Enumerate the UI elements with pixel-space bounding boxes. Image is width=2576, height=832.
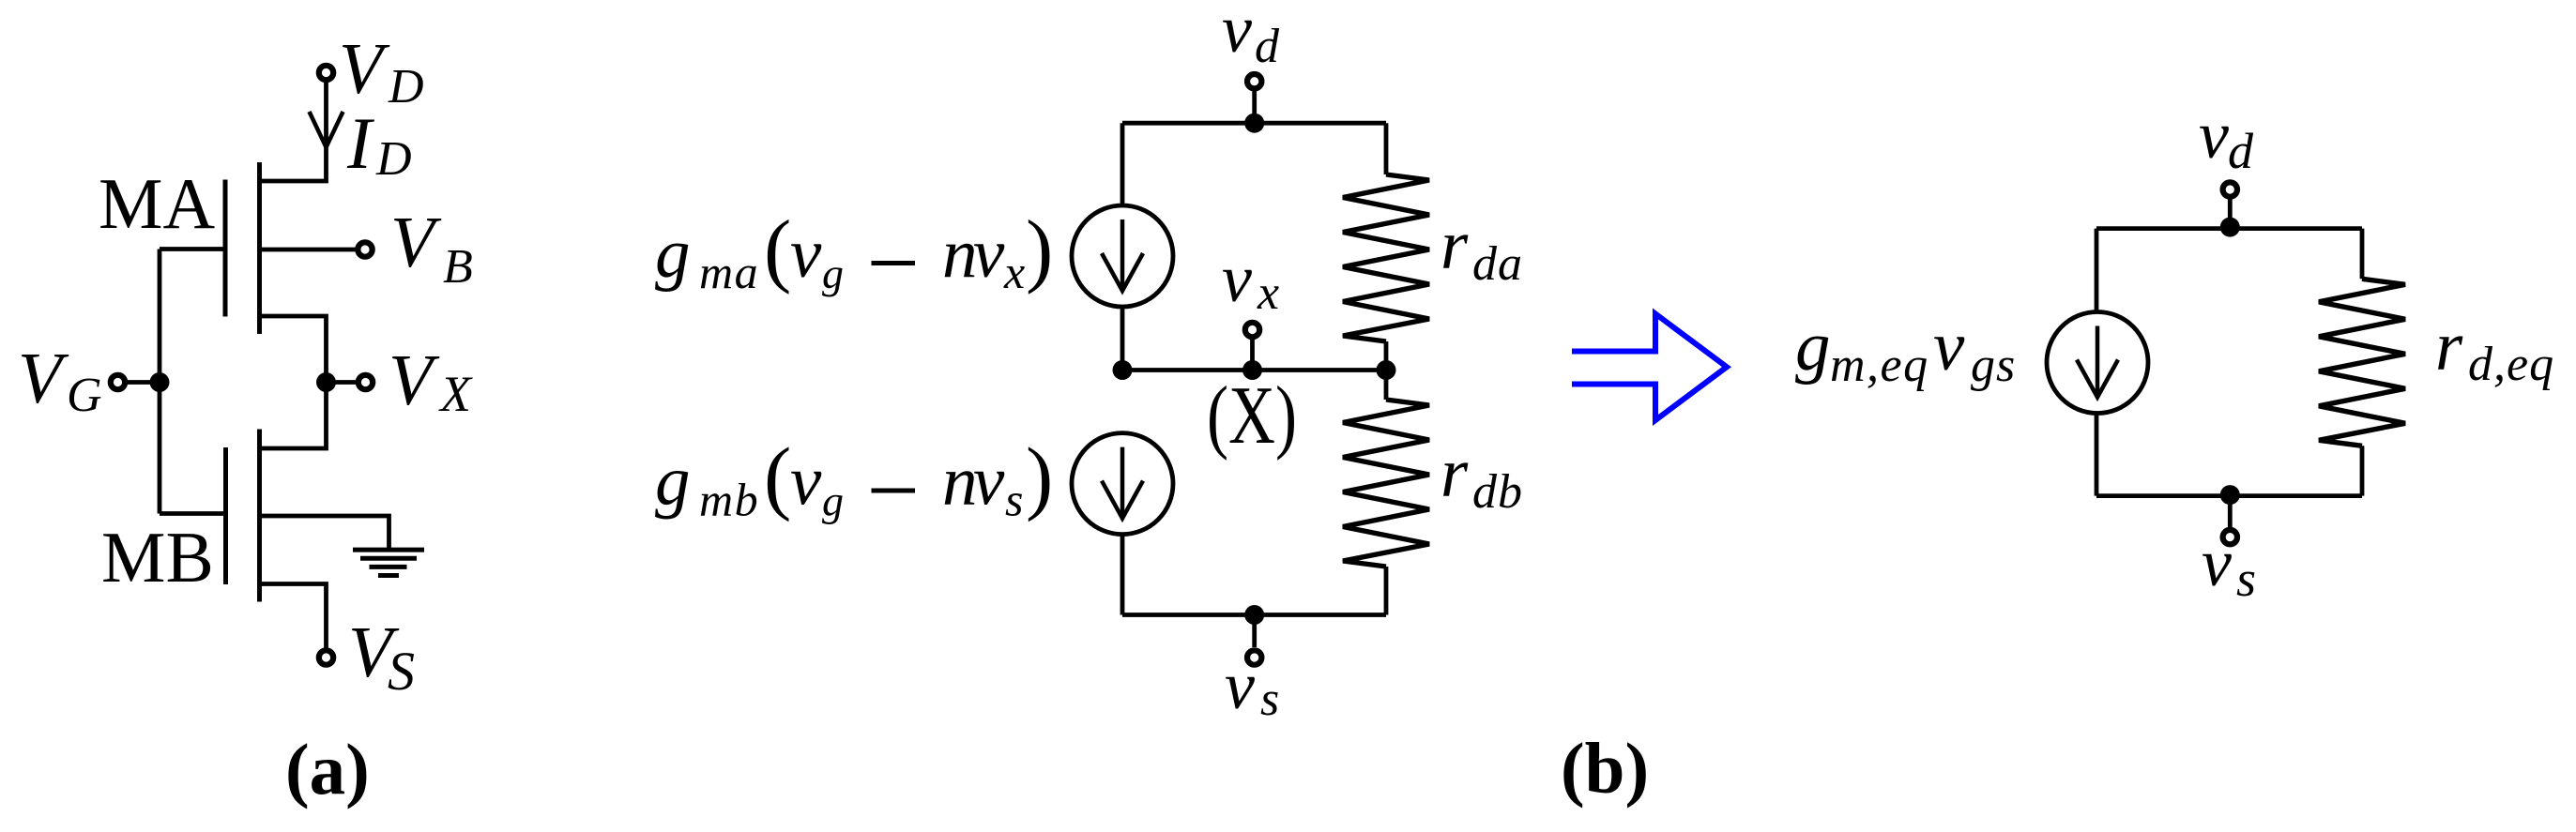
label VG (18, 338, 102, 422)
label gma(vg - nvx) (655, 204, 1053, 298)
svg-text:d: d (2228, 123, 2254, 179)
svg-text:V: V (390, 202, 442, 282)
label VX (389, 340, 473, 422)
svg-text:V: V (18, 338, 69, 418)
svg-text:g: g (655, 215, 691, 293)
svg-text:MA: MA (99, 163, 215, 244)
current source gmeq (2047, 312, 2148, 414)
label gmb(vg - nvs) (655, 432, 1053, 526)
svg-text:v: v (973, 443, 1005, 521)
svg-text:): ) (1026, 432, 1053, 523)
wire rdb to bottom rail (1384, 567, 1389, 615)
label VB (390, 202, 473, 294)
vs stem wire (2228, 496, 2233, 527)
transistor MB gate bar (223, 447, 228, 584)
node vs terminal (2223, 530, 2237, 544)
wire rdeq to bottom rail (2360, 446, 2365, 495)
transistor MA gate bar (223, 180, 228, 317)
svg-text:(: ( (764, 204, 791, 295)
vd stem wire (1252, 91, 1257, 123)
svg-text:x: x (1257, 266, 1279, 320)
svg-text:n: n (942, 443, 978, 521)
vd stem wire (2228, 199, 2233, 229)
node vs terminal (1247, 650, 1261, 664)
transistor MB channel bar (257, 430, 262, 602)
wire top rail to source A (1120, 123, 1125, 205)
svg-text:v: v (790, 443, 822, 521)
svg-text:g: g (655, 443, 691, 521)
vs stem wire (1252, 615, 1257, 648)
current source gmb (1072, 433, 1173, 535)
svg-text:mb: mb (699, 474, 759, 526)
svg-text:n: n (942, 215, 978, 293)
terminal VX (358, 375, 373, 389)
label rda (1440, 206, 1523, 291)
label rdeq (2435, 308, 2554, 391)
MB source wire to VS (260, 584, 327, 648)
gate bus vertical wire (158, 250, 162, 514)
svg-text:V: V (339, 28, 390, 109)
terminal VB (358, 242, 372, 256)
wire top rail to rdeq (2360, 229, 2365, 280)
MA gate wire (160, 247, 225, 251)
label vs (1225, 648, 1279, 726)
svg-text:v: v (2199, 98, 2229, 173)
MB gate wire (160, 511, 226, 516)
svg-text:x: x (1003, 246, 1025, 298)
blue arrow (1572, 314, 1727, 421)
node vs junction dot (1244, 605, 1264, 625)
svg-text:g: g (822, 250, 844, 297)
terminal VS (319, 650, 333, 664)
svg-text:g: g (822, 477, 844, 525)
svg-text:r: r (1440, 434, 1469, 512)
svg-text:d,eq: d,eq (2468, 338, 2554, 391)
label rdb (1440, 434, 1523, 519)
svg-text:X: X (438, 366, 473, 422)
top rail wire (2096, 226, 2362, 231)
svg-text:I: I (346, 102, 375, 184)
svg-text:S: S (388, 641, 415, 702)
svg-text:v: v (1933, 308, 1965, 386)
svg-text:v: v (1222, 0, 1252, 67)
node vs junction dot (2220, 485, 2240, 505)
VB wire (260, 248, 356, 252)
MA source wire down to node X (260, 316, 327, 383)
wire source A to mid rail (1120, 307, 1125, 371)
svg-text:m,eq: m,eq (1830, 339, 1929, 392)
VG wire (125, 380, 160, 385)
current source gma (1072, 205, 1173, 307)
label vd (1222, 0, 1280, 73)
svg-text:ma: ma (699, 246, 759, 298)
svg-text:s: s (1260, 673, 1279, 726)
MB body wire to ground (260, 516, 389, 550)
terminal VD (319, 66, 333, 80)
svg-text:db: db (1472, 465, 1523, 519)
svg-text:(: ( (764, 432, 791, 523)
svg-text:d: d (1255, 20, 1280, 73)
node X junction dot (316, 372, 336, 392)
label vx (1222, 241, 1279, 320)
svg-text:V: V (389, 340, 440, 420)
svg-text:r: r (1440, 206, 1469, 284)
svg-text:MB: MB (101, 517, 214, 598)
resistor rdb (1343, 400, 1429, 567)
wire rda to mid rail (1384, 341, 1389, 371)
svg-text:): ) (1026, 204, 1053, 295)
svg-text:gs: gs (1971, 339, 2016, 392)
node vx terminal (1245, 323, 1259, 337)
node vx junction dot (1242, 360, 1262, 380)
svg-text:s: s (1005, 474, 1023, 526)
VX wire (327, 380, 357, 385)
mid rail wire (1122, 368, 1386, 372)
bottom rail wire (2096, 493, 2362, 498)
label VD (339, 28, 424, 113)
label gmeq vgs (1795, 308, 2016, 392)
resistor rdeq (2319, 279, 2405, 446)
svg-text:v: v (790, 215, 822, 293)
top rail wire (1122, 121, 1386, 126)
wire source B to bottom rail (1120, 535, 1125, 615)
wire source to bottom rail (2095, 414, 2099, 496)
label vd (2199, 98, 2254, 179)
label ID (346, 102, 412, 186)
minus sign in gmb label (872, 489, 916, 493)
transistor MA channel bar (257, 162, 262, 334)
svg-text:(X): (X) (1207, 371, 1297, 461)
node vd junction dot (2220, 218, 2240, 237)
svg-text:(a): (a) (285, 729, 370, 809)
svg-text:D: D (388, 60, 424, 113)
svg-text:da: da (1472, 237, 1523, 291)
resistor rda (1343, 174, 1429, 341)
svg-text:D: D (375, 132, 412, 186)
wire top rail to source (2095, 229, 2099, 312)
svg-text:G: G (67, 369, 102, 422)
ground (353, 550, 424, 575)
wire top rail to rda (1384, 123, 1389, 174)
svg-text:v: v (1225, 648, 1255, 723)
label VS (348, 612, 415, 702)
terminal VG (111, 375, 125, 389)
junction dot right (1377, 360, 1396, 380)
node vd junction dot (1244, 113, 1264, 133)
svg-text:g: g (1795, 308, 1831, 386)
svg-text:s: s (2236, 551, 2256, 607)
wire VD to drain of MA (260, 83, 327, 181)
wire node X to MB drain (260, 383, 327, 449)
minus sign in gma label (872, 261, 916, 265)
label vs (2202, 525, 2256, 607)
wire mid rail to rdb (1384, 371, 1389, 401)
node vd terminal (2223, 182, 2237, 196)
junction dot left (1113, 360, 1133, 380)
current arrow ID (310, 112, 343, 147)
svg-text:v: v (2202, 525, 2232, 600)
node vd terminal (1247, 74, 1261, 88)
svg-text:r: r (2435, 308, 2463, 386)
svg-text:B: B (443, 240, 473, 294)
svg-text:v: v (1222, 241, 1252, 316)
svg-text:v: v (973, 215, 1005, 293)
VG junction dot (150, 372, 170, 392)
bottom rail wire (1122, 613, 1386, 617)
svg-text:(b): (b) (1561, 728, 1649, 809)
vx stem wire (1250, 340, 1255, 371)
